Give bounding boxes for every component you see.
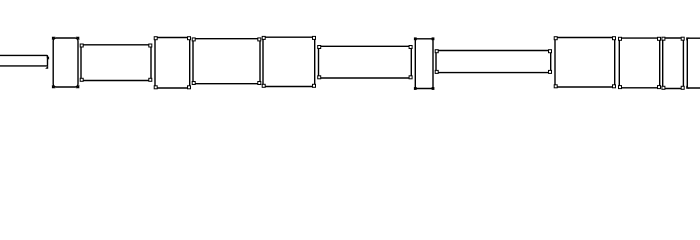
TL13 pin marker (bottom-left vertex arrow): [686, 86, 689, 89]
microstrip section TL8 (low-impedance section): [414, 37, 435, 90]
microstrip section TL4 (low-impedance section): [154, 37, 190, 89]
TL1 pin marker (top-right vertex arrow): [46, 57, 49, 60]
TL13 pin marker (top-left vertex arrow): [686, 37, 689, 40]
TL1 pin marker (bottom-right vertex arrow): [45, 66, 48, 69]
microstrip section TL6 (low-impedance section): [262, 36, 315, 87]
microstrip section TL2 (low-impedance section): [52, 37, 79, 89]
microstrip section TL5 (series section): [192, 38, 261, 85]
microstrip section TL7 (series section): [318, 46, 412, 79]
microstrip section TL9 (high-impedance line): [435, 50, 551, 74]
microstrip section TL1 (input feed line): [0, 55, 48, 66]
microstrip section TL10 (low-impedance section): [554, 37, 615, 88]
microstrip section TL3 (series section): [80, 44, 152, 81]
microstrip section TL11 (series section): [619, 37, 661, 88]
microstrip section TL12 (low-impedance section): [662, 37, 684, 89]
microstrip section TL13 (output line): [687, 38, 700, 88]
